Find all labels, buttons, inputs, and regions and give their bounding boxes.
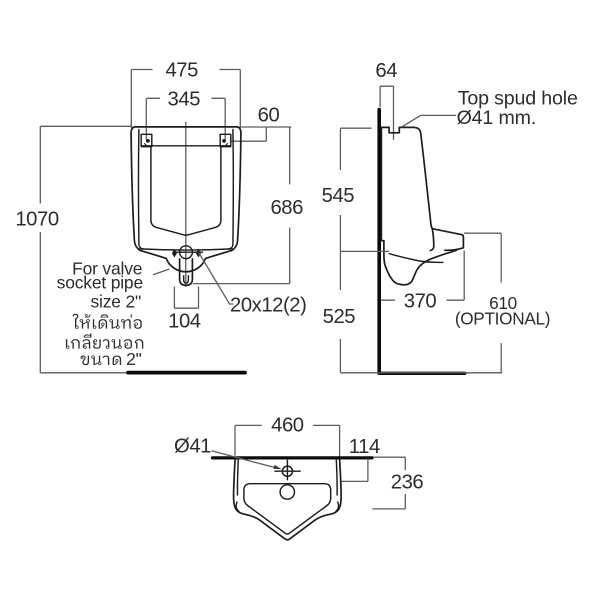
plan view: inner bowl shape: [244, 484, 331, 534]
front view: spud circle: [180, 246, 193, 259]
svg-text:114: 114: [349, 436, 380, 458]
plan view: inner edge lines near wall: [236, 460, 239, 495]
front view: hanger rail line: [141, 145, 231, 147]
side view: dimension 545: [340, 128, 389, 251]
front view: leader for valve note: [153, 269, 170, 275]
svg-text:370: 370: [404, 291, 437, 313]
svg-text:socket pipe: socket pipe: [57, 273, 143, 293]
plan view: dimension 460: [235, 425, 340, 458]
svg-text:20x12(2): 20x12(2): [230, 294, 306, 316]
svg-text:Ø41 mm.: Ø41 mm.: [457, 107, 537, 129]
svg-text:104: 104: [168, 310, 201, 332]
side view: dimension 610 optional: [464, 233, 501, 373]
side view: urinal back edge: [381, 127, 383, 240]
front view: fixing slot arrows 20x12: [172, 249, 177, 258]
front view: right bracket: [220, 134, 231, 146]
front view: dimension 475: [131, 70, 240, 129]
side view: dimension 525: [339, 251, 341, 372]
front view: leader 20x12(2): [199, 253, 234, 305]
front view: note text TH line2: [66, 333, 143, 348]
front view: dimension 1070: [40, 126, 131, 372]
front view: floor line thick: [128, 371, 245, 375]
svg-text:460: 460: [271, 414, 304, 436]
svg-text:2": 2": [126, 349, 142, 369]
svg-text:(OPTIONAL): (OPTIONAL): [455, 308, 550, 328]
svg-text:545: 545: [322, 185, 355, 207]
side view: dimension 64: [380, 86, 393, 140]
plan view: dimension 114: [341, 459, 368, 482]
plan view: urinal outer outline: [234, 460, 342, 540]
svg-text:236: 236: [391, 472, 424, 494]
front view: outlet spout: [180, 259, 193, 285]
svg-text:Top spud hole: Top spud hole: [458, 88, 578, 110]
plan view: drain circle: [280, 485, 294, 499]
side view: inner bowl line: [389, 254, 443, 263]
front view: right inner highlight line: [229, 130, 234, 250]
svg-text:345: 345: [168, 89, 201, 111]
plan view: spud hole circle: [282, 466, 292, 476]
side view: dimension 370: [381, 251, 465, 301]
svg-text:64: 64: [375, 60, 397, 82]
svg-text:Ø41: Ø41: [174, 435, 211, 457]
front view: dimension 104: [174, 287, 198, 309]
front view: dimension 345: [146, 98, 225, 140]
front view: left inner highlight line: [138, 130, 143, 250]
svg-text:475: 475: [165, 59, 198, 81]
svg-text:60: 60: [258, 105, 280, 127]
side view: urinal top edge with spud notch and front slope: [381, 127, 434, 250]
front view: dimension 686: [193, 127, 290, 284]
front view: dimension 60: [231, 127, 291, 141]
side view: underside outline: [386, 250, 457, 285]
plan view: wall thick line: [213, 456, 373, 459]
front view: urinal outer outline: [131, 127, 241, 272]
svg-text:1070: 1070: [15, 208, 58, 230]
svg-text:686: 686: [270, 197, 303, 219]
side view: rim outline: [432, 229, 463, 251]
side view: wall thick line: [377, 110, 381, 374]
side view: leader top spud hole: [402, 115, 456, 127]
front view: centerline: [185, 122, 187, 287]
side view: floor thick line: [381, 372, 465, 375]
svg-text:size 2": size 2": [90, 292, 141, 312]
front view: note text TH line3 + 2": [80, 355, 121, 365]
plan view: left wing fold line: [236, 502, 239, 511]
front view: bottom rim line behind spud: [140, 249, 232, 250]
front view: note text TH line1: [72, 314, 141, 329]
side view: rear mounting tab: [380, 241, 386, 268]
side view: floor baseline thin: [340, 372, 502, 374]
plan view: dimension 236: [372, 457, 405, 509]
plan view: right wing fold line: [336, 502, 339, 511]
front view: left bracket: [141, 134, 152, 146]
front view: inner panel with chevron bottom: [151, 147, 221, 235]
svg-text:525: 525: [323, 306, 356, 328]
